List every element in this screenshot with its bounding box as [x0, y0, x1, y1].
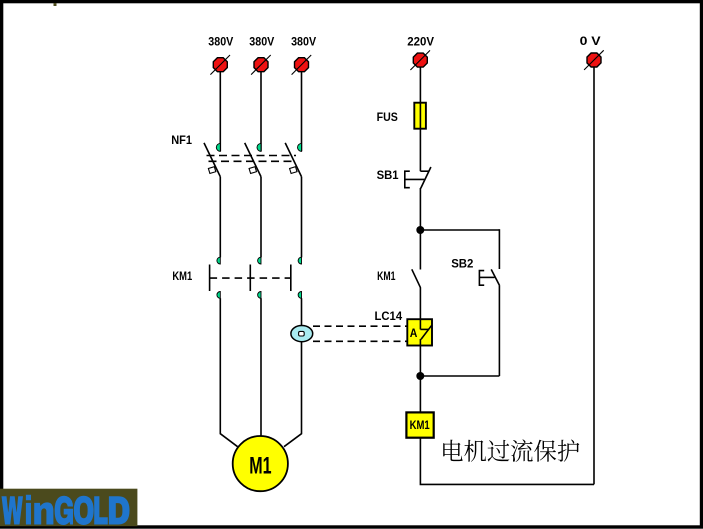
caption: motor overcurrent protection (Chinese) as vector path	[443, 439, 579, 462]
svg-text:380V: 380V	[208, 34, 233, 48]
pushbutton SB1 normally-closed: fixed contact, moving contact, actuator bracket	[405, 167, 431, 188]
wire from KM1 coil down then right to 0V riser	[420, 438, 594, 485]
wire L3 from KM1 through current sensor down then diagonal to motor M1	[284, 298, 302, 447]
motor M1 circle	[233, 436, 288, 491]
circuit breaker NF1 pole 3: contact wedge, switch lever, trip square	[285, 143, 301, 177]
wire L2 from KM1 straight down to motor M1	[260, 298, 262, 437]
terminal 380V L1: red circle-with-slash connection point	[210, 55, 230, 75]
wire L2 from 380V terminal to breaker NF1 pole 2	[260, 72, 262, 152]
junction B node dot	[416, 372, 424, 380]
terminal 380V L3: red circle-with-slash connection point	[292, 55, 312, 75]
dashed sensor link lower from CT to LC14 relay	[313, 340, 407, 342]
svg-text:380V: 380V	[291, 34, 316, 48]
wire L3 from NF1 to contactor KM1 pole 3	[301, 177, 303, 257]
wire from SB1 to junction A	[419, 188, 421, 270]
wire from LC14 to junction B	[419, 346, 421, 413]
current transformer sensor on L3 (cyan ellipse) linked to LC14	[291, 326, 313, 342]
wire from junction B right to SB2 branch bottom	[420, 375, 499, 377]
svg-text:0 V: 0 V	[580, 34, 601, 48]
circuit breaker NF1 pole 1: contact wedge, switch lever, trip square	[204, 143, 220, 177]
circuit breaker NF1 pole 2: contact wedge, switch lever, trip square	[245, 143, 261, 177]
wire from SB2 down to junction B row	[498, 286, 500, 376]
svg-text:SB2: SB2	[451, 257, 474, 271]
stray olive pixel on top border	[54, 3, 57, 6]
svg-text:KM1: KM1	[410, 420, 431, 432]
overload relay LC14 (yellow box with NC contact)	[407, 319, 432, 345]
wire from junction A right to SB2 branch	[420, 229, 499, 231]
contactor KM1 main pole 2: upper wedge, contact bar, lower wedge	[250, 257, 261, 298]
contactor coil KM1 (yellow box)	[406, 412, 433, 437]
wire riser up to 0V terminal	[593, 67, 595, 485]
terminal 0V: red circle-with-slash connection point	[584, 50, 604, 70]
svg-text:KM1: KM1	[172, 269, 192, 283]
WINGOLD logo text	[2, 495, 130, 525]
wire L1 from NF1 to contactor KM1 pole 1	[219, 177, 221, 257]
contactor KM1 main pole 3: upper wedge, contact bar, lower wedge	[291, 257, 302, 298]
wire L1 from 380V terminal to breaker NF1 pole 1	[219, 72, 221, 152]
junction A node dot	[416, 226, 424, 234]
svg-text:LC14: LC14	[375, 309, 403, 323]
pushbutton SB2 normally-open: moving contact, actuator bracket	[479, 269, 499, 285]
svg-text:380V: 380V	[249, 34, 274, 48]
NF1 mechanical linkage dashed line upper	[207, 155, 297, 157]
wire from KM1 aux contact to LC14 relay	[419, 288, 421, 321]
dashed sensor link upper from CT to LC14 relay	[313, 325, 407, 327]
wire down to SB2	[498, 229, 500, 269]
terminal 220V: red circle-with-slash connection point	[410, 50, 430, 70]
wire L1 from KM1 down then diagonal to motor M1	[220, 298, 237, 447]
terminal 380V L2: red circle-with-slash connection point	[251, 55, 271, 75]
contactor KM1 auxiliary contact (normally open)	[412, 269, 421, 287]
svg-text:SB1: SB1	[377, 168, 399, 182]
wire L3 from 380V terminal to breaker NF1 pole 3	[301, 72, 303, 152]
svg-text:M1: M1	[249, 453, 271, 480]
fuse FUS (yellow rectangle)	[414, 103, 426, 129]
WINGOLD logo badge	[0, 489, 137, 527]
svg-text:FUS: FUS	[377, 110, 398, 124]
svg-text:220V: 220V	[407, 34, 434, 48]
KM1 mechanical linkage dashed line	[210, 277, 291, 279]
wire from 220V terminal through fuse to SB1	[419, 67, 421, 171]
NF1 mechanical linkage dashed line lower	[209, 160, 297, 162]
svg-text:A: A	[410, 326, 418, 340]
wire L2 from NF1 to contactor KM1 pole 2	[260, 177, 262, 257]
contactor KM1 main pole 1: upper wedge, contact bar, lower wedge	[210, 257, 221, 298]
svg-text:NF1: NF1	[171, 133, 192, 147]
svg-text:KM1: KM1	[377, 269, 396, 283]
